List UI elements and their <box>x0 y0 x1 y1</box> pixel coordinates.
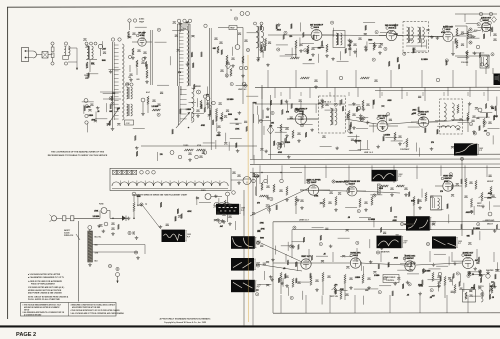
vert out stage tube V12 <box>301 259 311 269</box>
antenna output wires <box>68 47 77 49</box>
video amp parts <box>394 132 396 140</box>
svg-text:.25: .25 <box>411 113 413 115</box>
vert blocking transformer <box>431 196 442 210</box>
rectifier tube V16 <box>205 194 211 200</box>
box A pointer wire <box>143 206 160 228</box>
svg-text:270: 270 <box>257 202 260 204</box>
svg-text:.005: .005 <box>136 79 140 81</box>
svg-text:LINES 5 & 7: LINES 5 & 7 <box>299 219 309 221</box>
svg-text:2.2 MEG: 2.2 MEG <box>227 99 234 101</box>
video det parts <box>348 110 350 119</box>
svg-text:6CB6: 6CB6 <box>140 35 145 37</box>
svg-text:270: 270 <box>178 72 181 74</box>
sync clipper tube V9 <box>308 185 318 195</box>
svg-text:2.2 MEG: 2.2 MEG <box>368 219 375 221</box>
svg-text:150: 150 <box>128 77 131 79</box>
sound section b+ drops <box>267 70 269 88</box>
video if grid parts <box>280 124 282 132</box>
svg-text:270: 270 <box>350 132 353 134</box>
svg-text:HOLD: HOLD <box>477 205 483 207</box>
svg-text:.25: .25 <box>492 297 494 299</box>
coil end components <box>232 171 235 173</box>
svg-text:ON-OFF: ON-OFF <box>253 176 261 178</box>
black box E sawtooth <box>231 280 255 292</box>
on-off switch vertical <box>78 221 80 302</box>
svg-text:.0015: .0015 <box>412 110 416 112</box>
ac on-off tube <box>243 177 251 185</box>
svg-text:.0015: .0015 <box>387 100 391 102</box>
svg-text:CONTROL: CONTROL <box>386 280 394 282</box>
to tuner junction circles <box>240 12 244 16</box>
black box B ticks <box>216 204 239 215</box>
deflection left parts <box>280 272 282 281</box>
sync bus lines <box>273 220 500 222</box>
svg-text:VERT OUT: VERT OUT <box>485 220 495 222</box>
rf agc components <box>128 19 131 22</box>
sound if coupling parts <box>349 40 351 48</box>
filament coil bumps <box>112 182 228 186</box>
bus verticals right mid <box>252 104 254 159</box>
hv cage box <box>463 290 476 303</box>
t4 lower cluster y95-160 <box>206 97 210 101</box>
horiz osc tube V14 <box>405 261 415 271</box>
svg-text:HEIGHT: HEIGHT <box>487 181 494 183</box>
width coil <box>481 290 483 302</box>
gated agc transformers x125-136 <box>127 87 129 99</box>
svg-text:LINE 1 & 2: LINE 1 & 2 <box>238 89 246 91</box>
svg-text:.25: .25 <box>323 253 325 255</box>
black box I <box>372 170 397 182</box>
antenna plug <box>33 51 37 58</box>
b+ feed verticals extra <box>261 88 263 100</box>
vert osc tube V11 <box>443 181 453 191</box>
speaker black box right edge <box>494 74 500 86</box>
video amp tube V7 <box>377 121 388 132</box>
horiz drive box <box>383 275 399 283</box>
svg-text:.25: .25 <box>348 217 350 219</box>
shield inner taps <box>179 29 183 31</box>
main filter caps <box>216 211 219 213</box>
damper parts right edge <box>486 274 490 278</box>
agc resistor row y145-158 <box>170 151 174 155</box>
svg-text:5600: 5600 <box>260 238 264 240</box>
2nd sound if tube V3 <box>386 30 396 40</box>
balun left column <box>51 42 54 45</box>
4th if transformer dashed box <box>319 96 346 133</box>
box B top lead <box>227 196 229 204</box>
svg-text:270: 270 <box>289 36 292 38</box>
monitor point 5 <box>332 180 335 183</box>
svg-text:2.2 MEG: 2.2 MEG <box>383 134 390 136</box>
1st sound if tube V2 <box>311 30 322 41</box>
signal path wires <box>268 34 311 36</box>
peaking coils dashed box <box>440 99 463 134</box>
svg-text:270: 270 <box>160 154 163 156</box>
svg-text:270: 270 <box>431 142 434 144</box>
vert integrator parts <box>380 185 388 187</box>
B plus bus lines top right <box>255 86 500 88</box>
svg-text:HORIZ OUT: HORIZ OUT <box>463 252 474 254</box>
vert osc right edge tube <box>488 212 492 216</box>
filter choke <box>214 202 230 205</box>
vert linearity control <box>334 284 336 293</box>
contrast control <box>406 138 408 147</box>
if ladder lower coils <box>177 86 179 125</box>
black box A vv waveform <box>162 230 186 242</box>
svg-text:270: 270 <box>286 111 289 113</box>
svg-text:2.2 MEG: 2.2 MEG <box>421 59 428 61</box>
svg-text:5600: 5600 <box>228 114 232 116</box>
ratio det tube V4 <box>443 32 453 42</box>
svg-text:LINE 1 & 2: LINE 1 & 2 <box>364 152 373 154</box>
b minus vertical right of psu <box>243 190 245 236</box>
black box J <box>406 216 430 230</box>
transformer ground <box>89 263 91 265</box>
svg-text:2.2 MEG: 2.2 MEG <box>152 106 159 108</box>
sync clipper plate parts <box>295 196 297 205</box>
volume control <box>466 50 468 59</box>
svg-text:VERT LIN: VERT LIN <box>330 296 338 298</box>
svg-text:1 MEG: 1 MEG <box>355 277 361 279</box>
ratio det load parts <box>456 28 458 36</box>
svg-text:.25: .25 <box>97 111 99 113</box>
surge resistor <box>133 202 135 211</box>
fuse bump <box>99 211 101 219</box>
svg-text:2.2 MEG: 2.2 MEG <box>424 271 431 273</box>
sync out parts <box>359 198 361 207</box>
deflection row verticals <box>285 254 287 262</box>
svg-text:.0015: .0015 <box>216 135 220 137</box>
psu monitor circles <box>128 231 131 234</box>
mid sync components x390-430 <box>413 196 415 205</box>
video if bus verticals left <box>261 85 263 159</box>
ratio det output network <box>455 25 467 27</box>
transformer output wires <box>92 244 145 246</box>
svg-text:1 MEG: 1 MEG <box>88 115 94 117</box>
svg-text:2.2 MEG: 2.2 MEG <box>473 228 480 230</box>
oscillator parts <box>86 62 88 68</box>
page frame top border <box>7 6 500 7</box>
fold artifact streak <box>247 55 250 322</box>
black box D diag <box>231 258 254 271</box>
sync row left parts <box>255 174 259 178</box>
diagonal leads from boxes to tubes <box>257 241 303 262</box>
svg-text:VERT OSC: VERT OSC <box>443 176 453 178</box>
page frame left border <box>7 7 9 319</box>
sound takeoff transformer <box>256 26 259 48</box>
interstage transformer <box>333 31 345 48</box>
svg-text:.0015: .0015 <box>379 188 383 190</box>
crt coupling parts <box>467 112 469 121</box>
nested box line 2 <box>292 228 500 230</box>
bottom heavy rule <box>0 325 500 327</box>
svg-text:MONITOR: MONITOR <box>404 224 414 226</box>
horiz out tube V15 <box>462 257 473 268</box>
bottom verticals <box>280 295 282 313</box>
horiz circuit parts <box>432 272 434 281</box>
filter caps <box>111 222 114 224</box>
audio output tube V5 <box>481 22 490 31</box>
svg-text:270: 270 <box>440 191 443 193</box>
power transformer core <box>88 231 93 262</box>
svg-text:.0015: .0015 <box>465 212 469 214</box>
black box C arcs <box>231 236 255 249</box>
if shield can <box>177 24 179 86</box>
filament chain circles top <box>140 171 144 175</box>
svg-text:2.2 MEG: 2.2 MEG <box>93 216 100 218</box>
antenna terminal board <box>22 48 29 62</box>
svg-text:.25: .25 <box>407 295 409 297</box>
1st sound if grid parts <box>295 40 297 48</box>
svg-text:MONITOR: MONITOR <box>381 252 390 254</box>
sync row top wire <box>250 172 302 174</box>
sync diagonal feed <box>250 188 309 216</box>
filament coil chain box <box>110 168 231 190</box>
decoupling on b+ line <box>300 77 309 79</box>
bus line bottom <box>273 312 500 314</box>
svg-text:HORIZ DRIVE: HORIZ DRIVE <box>385 277 397 279</box>
svg-text:2.2 MEG: 2.2 MEG <box>355 140 362 142</box>
circuit texture filler <box>365 46 367 48</box>
matching box <box>42 52 48 59</box>
svg-text:1 MEG: 1 MEG <box>374 275 380 277</box>
hatched resistor sync left <box>378 184 381 194</box>
mixer transformer <box>85 42 88 45</box>
black box K <box>377 236 402 249</box>
agc diamond <box>267 126 273 134</box>
rf amp cathode parts <box>132 48 134 55</box>
vert hold control <box>481 192 483 201</box>
tuner lower taps <box>100 91 121 93</box>
balun right column transformer <box>64 42 67 45</box>
vert osc parts <box>465 178 467 187</box>
filament small squares <box>113 170 117 174</box>
svg-text:5600: 5600 <box>102 60 106 62</box>
top right corner wire <box>455 13 497 15</box>
horizontal bus lines mid page <box>268 153 500 155</box>
svg-text:6SN7GT: 6SN7GT <box>444 178 452 180</box>
svg-text:.0015: .0015 <box>394 257 398 259</box>
svg-text:6SN7GT: 6SN7GT <box>406 258 414 260</box>
fine tuning coil ladder <box>112 42 114 120</box>
bus line y146 left-mid <box>141 145 257 147</box>
svg-text:VERT OUT: VERT OUT <box>301 256 311 258</box>
horiz afc tube V13 <box>350 258 360 268</box>
svg-text:1 MEG: 1 MEG <box>186 109 192 111</box>
black box L <box>432 236 456 248</box>
black box M s-curve <box>454 143 477 155</box>
svg-text:1 MEG: 1 MEG <box>285 142 291 144</box>
svg-text:.0015: .0015 <box>277 29 281 31</box>
svg-text:MIXER: MIXER <box>195 86 201 88</box>
reference table box <box>21 303 117 317</box>
rf amp tube V1 <box>138 38 146 46</box>
svg-text:5600: 5600 <box>368 40 372 42</box>
svg-text:WIDTH: WIDTH <box>478 286 484 288</box>
svg-text:VOLUME: VOLUME <box>461 62 469 64</box>
t4 vertical bus pair <box>209 28 211 120</box>
ratio det transformer dashed box <box>403 22 429 53</box>
ac plug <box>51 216 56 221</box>
t4 caps upper <box>214 37 217 39</box>
sync phase inv tube V10 <box>347 186 357 196</box>
video if b+ drops <box>280 92 282 96</box>
ladder selector arrow <box>176 112 190 128</box>
trap box label <box>181 26 188 30</box>
output transformer and speaker <box>480 55 489 68</box>
svg-text:PAGE 2: PAGE 2 <box>16 332 36 338</box>
ladder taps <box>114 44 118 46</box>
tuning arrow <box>107 108 119 126</box>
47mc trap box <box>229 26 237 30</box>
height control <box>490 186 492 195</box>
3rd video if tube V6 <box>295 113 306 124</box>
svg-text:6BG6G: 6BG6G <box>465 255 472 257</box>
svg-text:HORIZ OSC: HORIZ OSC <box>405 256 416 258</box>
sync row verticals <box>259 165 261 184</box>
svg-text:.25: .25 <box>471 274 473 276</box>
t4 mid components <box>226 55 228 63</box>
svg-text:6K6GT: 6K6GT <box>487 224 494 226</box>
2nd video tube V8 <box>418 117 428 127</box>
agc line parts x140-160 y95-115 <box>141 98 145 102</box>
t4 trap drop vertical <box>242 28 244 105</box>
mixer grid parts x195-212 y88-125 <box>197 90 201 94</box>
screen bypass <box>150 30 152 85</box>
rectifier diode <box>122 216 126 221</box>
horiz afc parts <box>344 274 346 283</box>
